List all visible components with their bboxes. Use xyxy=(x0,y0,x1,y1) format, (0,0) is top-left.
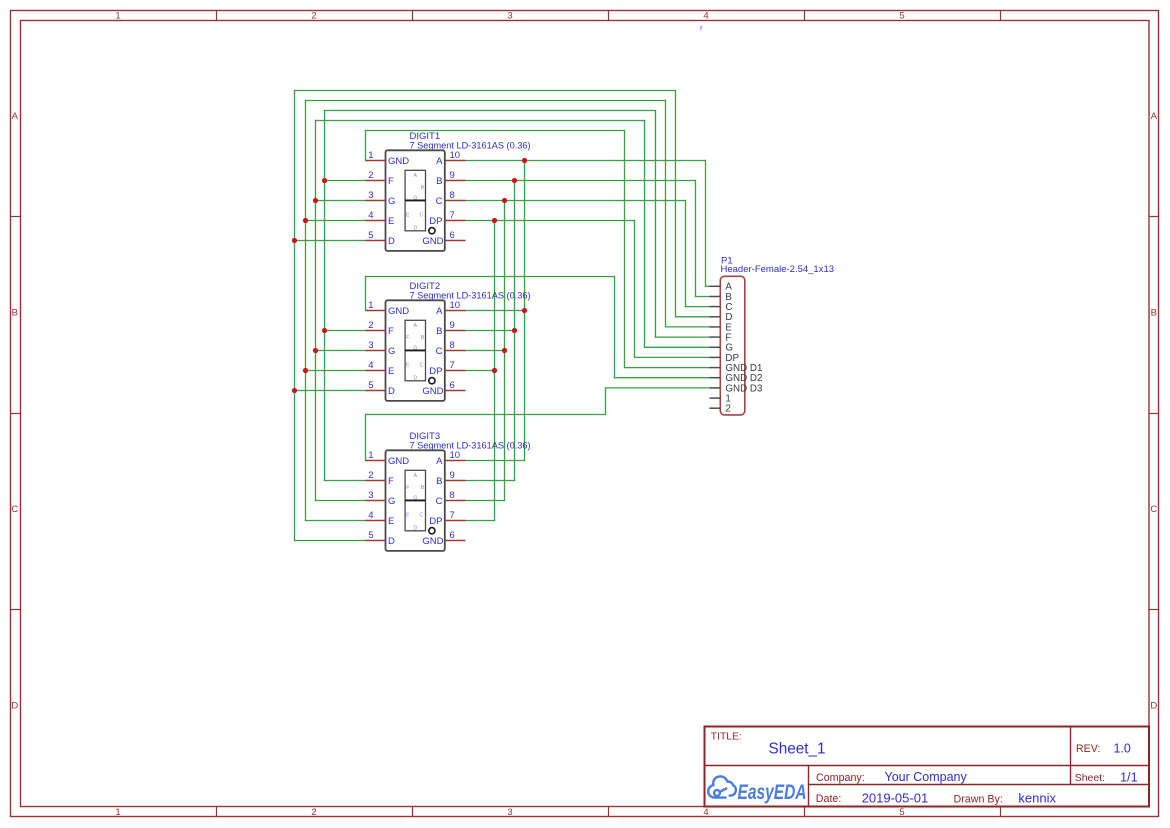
svg-text:1: 1 xyxy=(115,807,120,818)
svg-text:GND: GND xyxy=(388,306,409,317)
DIGIT2 seven-segment glyph xyxy=(405,320,425,381)
svg-text:2019-05-01: 2019-05-01 xyxy=(862,791,929,806)
wire net DP: bus vertical digit1-digit3 xyxy=(494,221,496,521)
svg-text:G: G xyxy=(413,195,417,201)
DIGIT1 pin 8 (C) xyxy=(445,200,466,202)
svg-text:3: 3 xyxy=(368,190,373,201)
svg-text:A: A xyxy=(436,456,443,467)
svg-text:Date:: Date: xyxy=(816,793,842,805)
wire net DP: DIGIT1 row horizontal to staircase xyxy=(466,220,635,222)
wire net A: DIGIT1 row horizontal to staircase xyxy=(466,160,706,162)
P1 pin 13 (2) xyxy=(710,407,721,409)
DIGIT1 seven-segment glyph xyxy=(405,170,425,231)
svg-text:10: 10 xyxy=(450,150,461,161)
wire net C: staircase vertical to P1 xyxy=(685,201,687,307)
svg-text:Sheet_1: Sheet_1 xyxy=(769,741,826,758)
svg-text:EasyEDA: EasyEDA xyxy=(738,780,807,804)
svg-text:DP: DP xyxy=(429,216,442,227)
wire net G: staircase vertical to P1 xyxy=(644,121,646,348)
DIGIT3 decimal point circle xyxy=(429,528,435,534)
wire net A: stub DIGIT2 xyxy=(466,310,525,312)
wire net F: stub to DIGIT3 pin 2 xyxy=(325,480,366,482)
svg-text:D: D xyxy=(413,526,417,532)
svg-text:8: 8 xyxy=(450,190,455,201)
wire net GND2: horizontal xyxy=(366,276,615,278)
wire net B: stub DIGIT3 xyxy=(466,480,515,482)
wire net E: into P1 pin xyxy=(666,326,710,328)
wire net E: top horizontal xyxy=(306,100,666,102)
wire net G: into P1 pin xyxy=(645,346,710,348)
junction net A at DIGIT1 row xyxy=(522,158,527,163)
wire net D: top horizontal xyxy=(295,90,676,92)
wire net G: stub to DIGIT1 pin 3 xyxy=(316,200,366,202)
svg-text:Drawn By:: Drawn By: xyxy=(954,793,1003,805)
svg-text:7 Segment LD-3161AS (0.36): 7 Segment LD-3161AS (0.36) xyxy=(410,290,531,300)
wire net C: stub DIGIT2 xyxy=(466,350,505,352)
P1 pin 5 (E) xyxy=(710,326,721,328)
svg-text:C: C xyxy=(436,496,443,507)
wire net G: stub to DIGIT2 pin 3 xyxy=(316,350,366,352)
DIGIT1 pin 3 (G) xyxy=(366,200,386,202)
junction net A at DIGIT2 row xyxy=(522,308,527,313)
svg-text:Your Company: Your Company xyxy=(885,770,968,784)
svg-text:7 Segment LD-3161AS (0.36): 7 Segment LD-3161AS (0.36) xyxy=(410,440,531,450)
svg-text:3: 3 xyxy=(368,340,373,351)
DIGIT3 pin 2 (F) xyxy=(366,480,386,482)
wire net B: bus vertical digit1-digit3 xyxy=(514,181,516,481)
connector P1 Header-Female-2.54_1x13 xyxy=(710,256,835,415)
wire net D: bus vertical xyxy=(294,91,296,541)
svg-text:4: 4 xyxy=(703,11,708,22)
display DIGIT3 7 Segment LD-3161AS (0.36) xyxy=(366,431,531,551)
wire net GND2: vertical from DIGIT2 pin 1 xyxy=(365,277,367,311)
svg-text:GND D3: GND D3 xyxy=(725,383,763,394)
wire net E: stub to DIGIT2 pin 4 xyxy=(306,370,366,372)
svg-text:GND: GND xyxy=(388,156,409,167)
DIGIT3 pin 5 (D) xyxy=(366,540,386,542)
wire net D: staircase vertical to P1 xyxy=(675,91,677,317)
DIGIT1 pin 5 (D) xyxy=(366,240,386,242)
wire net G: top horizontal xyxy=(316,120,645,122)
svg-text:1/1: 1/1 xyxy=(1120,770,1138,784)
DIGIT3 pin 9 (B) xyxy=(445,480,466,482)
svg-text:7: 7 xyxy=(450,210,455,221)
svg-text:4: 4 xyxy=(703,807,708,818)
svg-text:9: 9 xyxy=(450,170,455,181)
DIGIT1 pin 2 (F) xyxy=(366,180,386,182)
svg-text:5: 5 xyxy=(368,530,373,541)
svg-text:F: F xyxy=(388,476,394,487)
wire net GND3: vertical from DIGIT3 pin 1 xyxy=(365,415,367,461)
svg-text:6: 6 xyxy=(450,530,455,541)
DIGIT2 decimal point circle xyxy=(429,378,435,384)
P1 pin 11 (GND D3) xyxy=(710,387,721,389)
svg-text:B: B xyxy=(436,326,442,337)
svg-text:G: G xyxy=(413,345,417,351)
svg-text:D: D xyxy=(413,226,417,232)
P1 pin 12 (1) xyxy=(710,397,721,399)
wire net F: top horizontal xyxy=(325,110,656,112)
P1 pin 1 (A) xyxy=(710,285,721,287)
P1 pin 8 (DP) xyxy=(710,356,721,358)
wire net GND2: staircase vertical xyxy=(614,277,616,378)
DIGIT2 pin 2 (F) xyxy=(366,330,386,332)
svg-text:9: 9 xyxy=(450,470,455,481)
wire net C: into P1 pin xyxy=(686,306,710,308)
svg-text:F: F xyxy=(388,176,394,187)
wire net DP: into P1 pin xyxy=(635,356,710,358)
junction net DP at DIGIT1 row xyxy=(492,218,497,223)
wire net F: into P1 pin xyxy=(656,336,710,338)
svg-text:DP: DP xyxy=(429,516,442,527)
svg-text:G: G xyxy=(388,196,395,207)
svg-text:1: 1 xyxy=(368,450,373,461)
junction net E at DIGIT1 row xyxy=(303,218,308,223)
svg-text:D: D xyxy=(388,236,395,247)
P1 pin 9 (GND D1) xyxy=(710,367,721,369)
DIGIT3 pin 3 (G) xyxy=(366,500,386,502)
wire net C: DIGIT1 row horizontal to staircase xyxy=(466,200,686,202)
svg-text:2: 2 xyxy=(368,170,373,181)
wire net B: DIGIT1 row horizontal to staircase xyxy=(466,180,696,182)
wire net GND2: into P1 pin xyxy=(615,377,710,379)
svg-text:Company:: Company: xyxy=(816,772,865,784)
svg-text:7 Segment LD-3161AS (0.36): 7 Segment LD-3161AS (0.36) xyxy=(410,140,531,150)
DIGIT3 pin 7 (DP) xyxy=(445,520,466,522)
DIGIT1 pin 7 (DP) xyxy=(445,220,466,222)
svg-text:2: 2 xyxy=(368,320,373,331)
junction net B at DIGIT1 row xyxy=(512,178,517,183)
junction net D at DIGIT2 row xyxy=(292,388,297,393)
svg-text:2: 2 xyxy=(311,807,316,818)
P1 pin 10 (GND D2) xyxy=(710,377,721,379)
P1 pin 7 (G) xyxy=(710,346,721,348)
junction net F at DIGIT1 row xyxy=(322,178,327,183)
svg-text:TITLE:: TITLE: xyxy=(711,732,742,743)
svg-text:4: 4 xyxy=(368,510,373,521)
DIGIT2 pin 1 (GND) xyxy=(366,310,386,312)
wire net E: stub to DIGIT1 pin 4 xyxy=(306,220,366,222)
wire net G: stub to DIGIT3 pin 3 xyxy=(316,500,366,502)
DIGIT1 decimal point circle xyxy=(429,228,435,234)
display DIGIT1 7 Segment LD-3161AS (0.36) xyxy=(366,131,531,251)
svg-text:B: B xyxy=(436,176,442,187)
wire net B: stub DIGIT2 xyxy=(466,330,515,332)
svg-text:F: F xyxy=(388,326,394,337)
svg-text:r: r xyxy=(700,24,703,33)
svg-text:5: 5 xyxy=(368,380,373,391)
DIGIT3 pin 1 (GND) xyxy=(366,460,386,462)
EasyEDA logo xyxy=(708,776,806,803)
svg-text:2: 2 xyxy=(368,470,373,481)
junction net C at DIGIT1 row xyxy=(502,198,507,203)
svg-text:E: E xyxy=(388,516,394,527)
svg-text:G: G xyxy=(413,495,417,501)
DIGIT3 pin 8 (C) xyxy=(445,500,466,502)
junction net E at DIGIT2 row xyxy=(303,368,308,373)
DIGIT2 pin 8 (C) xyxy=(445,350,466,352)
wire net GND3: into P1 pin xyxy=(606,387,710,389)
wire net B: into P1 pin xyxy=(696,296,710,298)
DIGIT2 pin 10 (A) xyxy=(445,310,466,312)
title block xyxy=(705,727,1150,807)
svg-text:4: 4 xyxy=(368,360,373,371)
svg-text:GND: GND xyxy=(422,536,443,547)
svg-text:B: B xyxy=(12,308,18,319)
svg-text:D: D xyxy=(388,536,395,547)
svg-text:A: A xyxy=(436,306,443,317)
junction net F at DIGIT2 row xyxy=(322,328,327,333)
DIGIT1 pin 6 (GND) xyxy=(445,240,466,242)
svg-text:1: 1 xyxy=(368,300,373,311)
wire net D: stub to DIGIT3 pin 5 xyxy=(295,540,366,542)
svg-text:3: 3 xyxy=(507,807,512,818)
junction net B at DIGIT2 row xyxy=(512,328,517,333)
svg-text:C: C xyxy=(1150,504,1157,515)
svg-text:C: C xyxy=(419,213,423,219)
svg-text:E: E xyxy=(388,216,394,227)
svg-text:4: 4 xyxy=(368,210,373,221)
svg-text:GND: GND xyxy=(422,236,443,247)
display DIGIT2 7 Segment LD-3161AS (0.36) xyxy=(366,281,531,401)
wire net DP: stub DIGIT2 xyxy=(466,370,495,372)
svg-text:1: 1 xyxy=(115,11,120,22)
DIGIT2 pin 5 (D) xyxy=(366,390,386,392)
svg-text:8: 8 xyxy=(450,490,455,501)
wire net GND3: horizontal xyxy=(366,414,606,416)
DIGIT1 pin 10 (A) xyxy=(445,160,466,162)
DIGIT1 pin 1 (GND) xyxy=(366,160,386,162)
svg-text:5: 5 xyxy=(899,807,904,818)
wire net F: staircase vertical to P1 xyxy=(655,111,657,338)
DIGIT2 pin 6 (GND) xyxy=(445,390,466,392)
wire net DP: stub DIGIT3 xyxy=(466,520,495,522)
svg-text:C: C xyxy=(419,363,423,369)
DIGIT3 pin 6 (GND) xyxy=(445,540,466,542)
svg-text:B: B xyxy=(436,476,442,487)
svg-text:A: A xyxy=(1151,111,1158,122)
wire net D: into P1 pin xyxy=(676,316,710,318)
DIGIT2 pin 7 (DP) xyxy=(445,370,466,372)
svg-text:C: C xyxy=(436,196,443,207)
wire net B: staircase vertical to P1 xyxy=(695,181,697,297)
wire net GND1: horizontal xyxy=(366,130,625,132)
svg-text:2: 2 xyxy=(725,404,730,415)
P1 pin 3 (C) xyxy=(710,306,721,308)
wire net GND1: into P1 pin xyxy=(625,367,710,369)
svg-text:G: G xyxy=(388,496,395,507)
wire net C: stub DIGIT3 xyxy=(466,500,505,502)
svg-text:3: 3 xyxy=(368,490,373,501)
svg-text:6: 6 xyxy=(450,230,455,241)
svg-text:C: C xyxy=(436,346,443,357)
svg-text:B: B xyxy=(1151,308,1157,319)
svg-text:D: D xyxy=(413,376,417,382)
svg-text:D: D xyxy=(1150,701,1157,712)
wire net GND3: staircase vertical xyxy=(605,388,607,415)
svg-text:A: A xyxy=(12,111,19,122)
wire net E: stub to DIGIT3 pin 4 xyxy=(306,520,366,522)
svg-text:3: 3 xyxy=(507,11,512,22)
wire net D: stub to DIGIT1 pin 5 xyxy=(295,240,366,242)
DIGIT1 pin 9 (B) xyxy=(445,180,466,182)
svg-text:10: 10 xyxy=(450,300,461,311)
DIGIT3 pin 4 (E) xyxy=(366,520,386,522)
P1 pin 2 (B) xyxy=(710,296,721,298)
junction net G at DIGIT1 row xyxy=(313,198,318,203)
wire net A: stub DIGIT3 xyxy=(466,460,525,462)
svg-text:D: D xyxy=(11,701,18,712)
svg-text:GND: GND xyxy=(388,456,409,467)
DIGIT3 seven-segment glyph xyxy=(405,470,425,531)
svg-text:G: G xyxy=(388,346,395,357)
svg-text:DP: DP xyxy=(429,366,442,377)
wire net GND1: staircase vertical xyxy=(624,131,626,368)
svg-text:E: E xyxy=(388,366,394,377)
svg-text:C: C xyxy=(11,504,18,515)
P1 pin 4 (D) xyxy=(710,316,721,318)
wire net G: bus vertical xyxy=(315,121,317,501)
wire net F: bus vertical xyxy=(324,111,326,481)
DIGIT2 pin 9 (B) xyxy=(445,330,466,332)
svg-text:REV:: REV: xyxy=(1076,743,1100,755)
svg-text:F: F xyxy=(406,335,409,341)
P1 pin 6 (F) xyxy=(710,336,721,338)
DIGIT2 pin 4 (E) xyxy=(366,370,386,372)
svg-text:7: 7 xyxy=(450,360,455,371)
svg-text:C: C xyxy=(419,513,423,519)
svg-text:8: 8 xyxy=(450,340,455,351)
svg-text:7: 7 xyxy=(450,510,455,521)
wire net A: bus vertical digit1-digit3 xyxy=(524,161,526,461)
wire net E: bus vertical xyxy=(305,101,307,521)
DIGIT2 pin 3 (G) xyxy=(366,350,386,352)
junction net D at DIGIT1 row xyxy=(292,238,297,243)
wire net F: stub to DIGIT2 pin 2 xyxy=(325,330,366,332)
svg-text:1.0: 1.0 xyxy=(1114,741,1131,755)
svg-text:5: 5 xyxy=(368,230,373,241)
DIGIT1 pin 4 (E) xyxy=(366,220,386,222)
wire net GND1: vertical from DIGIT1 pin 1 xyxy=(365,131,367,161)
wire net A: staircase vertical to P1 xyxy=(705,161,707,287)
svg-text:F: F xyxy=(406,485,409,491)
svg-text:5: 5 xyxy=(899,11,904,22)
svg-text:GND: GND xyxy=(422,386,443,397)
svg-text:A: A xyxy=(436,156,443,167)
junction net DP at DIGIT2 row xyxy=(492,368,497,373)
wire net DP: staircase vertical to P1 xyxy=(634,221,636,358)
svg-text:6: 6 xyxy=(450,380,455,391)
wire net D: stub to DIGIT2 pin 5 xyxy=(295,390,366,392)
DIGIT3 pin 10 (A) xyxy=(445,460,466,462)
junction net G at DIGIT2 row xyxy=(313,348,318,353)
svg-text:Sheet:: Sheet: xyxy=(1075,772,1105,784)
svg-text:kennix: kennix xyxy=(1018,791,1056,806)
wire net C: bus vertical digit1-digit3 xyxy=(504,201,506,501)
junction net C at DIGIT2 row xyxy=(502,348,507,353)
svg-text:9: 9 xyxy=(450,320,455,331)
wire net E: staircase vertical to P1 xyxy=(665,101,667,327)
wire net A: into P1 pin xyxy=(706,285,710,287)
svg-text:Header-Female-2.54_1x13: Header-Female-2.54_1x13 xyxy=(721,264,835,275)
wire net F: stub to DIGIT1 pin 2 xyxy=(325,180,366,182)
svg-text:2: 2 xyxy=(311,11,316,22)
svg-text:D: D xyxy=(388,386,395,397)
svg-text:1: 1 xyxy=(368,150,373,161)
svg-text:10: 10 xyxy=(450,450,461,461)
